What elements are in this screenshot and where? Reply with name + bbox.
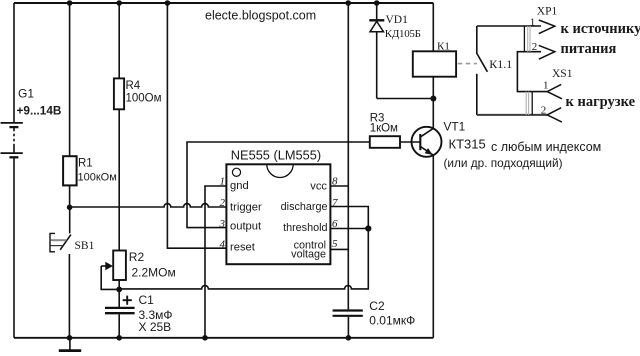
XP1 pin 1 number [530,16,536,28]
pin number 3 [219,218,226,230]
wire XP1 pin2 to XS1 pin1 [517,52,547,92]
label XS1 [552,68,573,80]
label VT1 [444,120,466,134]
label КТ315 [449,136,486,151]
pin number 4 [220,238,226,250]
XS1 pin 2 socket fork [547,108,562,122]
relay coil K1 [413,51,456,76]
svg-text:+9...14В: +9...14В [17,103,62,117]
pin label voltage [291,249,326,261]
wire contact bottom to XS1 pin2 [477,114,547,116]
svg-text:XS1: XS1 [552,68,573,80]
diode VD1 [369,3,384,99]
label R4 [126,80,141,92]
wire control pin5 to C2 [330,248,348,250]
node gnd/ground rail [202,335,208,341]
svg-text:trigger: trigger [230,202,262,214]
pin number 1 [220,176,226,188]
svg-text:100кОм: 100кОм [78,172,117,184]
watermark electe.blogspot.com [205,8,316,22]
wire output to R3 [187,142,370,228]
pin number 2 [220,197,226,209]
node collector/VD1 junction [430,96,436,102]
svg-text:XP1: XP1 [537,6,558,18]
resistor R3 [370,136,400,148]
pin label vcc [310,181,327,193]
svg-text:100Ом: 100Ом [126,92,162,104]
node R2/C1 junction [116,287,122,293]
wire R1 bottom to trigger node [69,185,71,207]
IC pin1 indicator circle [232,168,240,176]
svg-text:electe.blogspot.com: electe.blogspot.com [205,8,316,22]
svg-text:threshold: threshold [283,222,327,234]
svg-text:питания: питания [561,41,617,57]
value X 25В [139,320,172,334]
resistor R4 [114,78,124,109]
svg-text:output: output [230,220,262,232]
pin number 7 [332,197,338,209]
relay contact K1.1 [476,26,487,115]
wire R2 bottom to C1 node [118,280,120,289]
svg-text:1: 1 [220,176,226,188]
value 2.2МОм [132,266,176,280]
node junction +V/vcc riser [345,0,351,6]
value КД105Б [385,28,421,40]
pin label trigger [230,202,262,214]
wire R1 branch from +V rail [69,3,71,156]
wire R4 bottom to R2 top [118,109,120,250]
wire VD1 bottom horizontal [377,98,434,100]
svg-text:2: 2 [532,41,538,53]
ground symbol [59,338,81,351]
wire threshold pin6 [330,228,368,230]
pin label control [294,240,326,252]
svg-text:К1: К1 [437,40,450,52]
label К1 [437,40,450,52]
node C1/ground rail [116,335,122,341]
svg-text:2: 2 [541,105,547,117]
node trigger junction [67,205,73,211]
XP1 pin 2 number [532,41,538,53]
svg-text:X 25В: X 25В [139,320,172,334]
wire reset to +V rail [167,3,226,248]
label SB1 [75,240,95,252]
label R2 [129,250,145,264]
label К1.1 [489,57,512,71]
svg-text:1: 1 [530,16,536,28]
pin label reset [230,241,256,253]
svg-text:gnd: gnd [230,180,249,192]
wire R4 branch from +V rail [118,3,120,78]
wire C1 bottom to ground rail [118,314,120,337]
dashed actuation link K1 to K1.1 [458,63,477,65]
note (или др. подходящий) [444,156,563,170]
svg-text:G1: G1 [18,87,34,101]
svg-text:К1.1: К1.1 [489,57,512,71]
pin number 6 [332,218,338,230]
svg-text:2.2МОм: 2.2МОм [132,266,176,280]
XP1 pin 1 plug arrow [539,20,555,34]
wire riser +V rail to C2 (vcc/control column) [347,3,349,309]
svg-text:C2: C2 [369,299,385,313]
XS1 pin 1 socket fork [547,84,562,98]
svg-text:voltage: voltage [291,249,326,261]
wire R3 to VT1 base [400,141,420,143]
value 100кОм [78,172,117,184]
svg-text:R2: R2 [129,250,145,264]
svg-text:3: 3 [219,218,226,230]
value 1кОм [370,123,398,135]
svg-text:R1: R1 [78,158,93,170]
svg-text:с любым индексом: с любым индексом [491,140,601,154]
push-button SB1 [50,207,71,337]
capacitor C2 [333,311,363,316]
node C2/ground rail [346,335,352,341]
variable resistor R2 [113,251,126,281]
node SB1/ground rail [67,335,73,341]
resistor R1 [63,156,77,185]
wire contact top to XP1 pin1 [477,25,541,27]
svg-text:R4: R4 [126,80,141,92]
node junction +V/reset [165,0,171,6]
op-amp/timer IC DA1 NE555 body [226,164,330,264]
pin number 8 [332,176,338,188]
svg-text:NE555 (LM555): NE555 (LM555) [231,148,321,163]
svg-text:1кОм: 1кОм [370,123,398,135]
wire vcc pin8 to +V rail [330,185,348,187]
value +9...14В [17,103,62,117]
svg-text:к источнику: к источнику [561,21,640,37]
capacitor C1 [105,308,135,313]
R2 wiper arrow [101,262,119,290]
XS1 pin 1 number [543,79,549,91]
svg-text:discharge: discharge [281,201,328,213]
label C2 [369,299,385,313]
label к источнику [561,21,640,37]
value 3.3мФ [139,308,173,322]
svg-text:5: 5 [332,238,338,250]
C1 plus sign [123,296,132,305]
svg-text:1: 1 [543,79,549,91]
wire +V rail corner down to K1 [432,3,434,51]
value 0.01мкФ [369,313,415,327]
battery G1 [1,123,23,157]
wire C2 bottom to ground rail [347,317,349,338]
connector XP1 bracket [524,26,530,52]
svg-text:VT1: VT1 [444,120,466,134]
wire bottom ground rail [14,337,433,339]
svg-text:SB1: SB1 [75,240,95,252]
svg-text:4: 4 [220,238,226,250]
svg-text:C1: C1 [139,293,155,307]
svg-text:vcc: vcc [310,181,327,193]
label к нагрузке [566,94,636,110]
IC top notch [267,164,293,177]
label R1 [78,158,93,170]
connector XS1 bracket [526,92,532,115]
label G1 [18,87,34,101]
value 100Ом [126,92,162,104]
label питания [561,41,617,57]
svg-text:VD1: VD1 [386,14,409,26]
pin number 5 [332,238,338,250]
wire C1 node down to C1 [118,289,120,307]
note с любым индексом [491,140,601,154]
label VD1 [386,14,409,26]
svg-text:КТ315: КТ315 [449,136,486,151]
node junction +V/VD1 [374,0,380,6]
pin label gnd [230,180,249,192]
wire left border bottom [13,158,15,338]
node junction +V/R1 [67,0,73,6]
node threshold/discharge junction [365,225,371,231]
transistor VT1 [412,127,442,157]
wire top +V rail [14,2,433,4]
svg-text:2: 2 [220,197,226,209]
wire right border (VT1 emitter to ground rail) [432,155,434,338]
node junction +V/R4 [116,0,122,6]
XS1 pin 2 number [541,105,547,117]
svg-text:(или др. подходящий): (или др. подходящий) [444,156,563,170]
wire left border top (G1 branch) [13,3,15,122]
pin label threshold [283,222,327,234]
label R3 [370,112,385,124]
pin label output [230,220,262,232]
wire VT1 collector up to K1 [432,77,434,129]
label C1 [139,293,155,307]
XP1 pin 2 plug arrow [539,45,555,59]
svg-text:к нагрузке: к нагрузке [566,94,636,110]
wire discharge pin7 down to threshold node [330,207,368,229]
wire gnd pin to ground rail [205,186,226,338]
svg-text:0.01мкФ: 0.01мкФ [369,313,415,327]
wire trigger line with hops [70,204,227,207]
wire threshold node to R2/C1 node with hops [119,229,368,289]
pin label discharge [281,201,328,213]
svg-text:reset: reset [230,241,256,253]
svg-text:КД105Б: КД105Б [385,28,421,40]
label NE555 (LM555) [231,148,321,163]
label XP1 [537,6,558,18]
